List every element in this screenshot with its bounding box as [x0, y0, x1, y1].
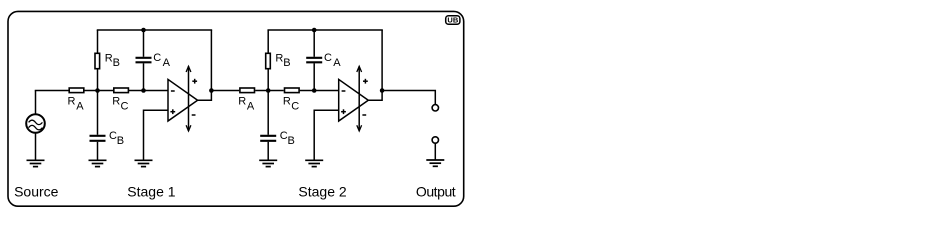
wire main: source to R_A (stage 1)	[35, 90, 70, 92]
svg-text:C: C	[121, 101, 129, 113]
svg-text:B: B	[117, 135, 124, 147]
ground (op-amp + input stage 2)	[305, 160, 323, 166]
wire C_B lower lead to ground (stage 2)	[267, 142, 269, 160]
label C_B (stage 1)	[109, 130, 124, 147]
label R_B (stage 1)	[105, 52, 120, 69]
capacitor C_B (stage 1)	[90, 136, 106, 141]
wire ground terminal to ground	[434, 143, 436, 160]
capacitor C_B (stage 2)	[260, 136, 276, 141]
svg-text:A: A	[333, 57, 341, 69]
node B1: C_A junction on main line (stage 1)	[141, 88, 146, 93]
wire main: stage 1 out to R_A (stage 2)	[211, 90, 239, 92]
resistor R_A (stage 1)	[69, 88, 84, 93]
svg-text:B: B	[113, 57, 120, 69]
svg-text:R: R	[105, 52, 113, 64]
label R_B (stage 2)	[275, 52, 290, 69]
node A2: R_A/R_C/R_B/C_B junction (stage 2)	[266, 88, 271, 93]
svg-text:C: C	[280, 130, 288, 142]
svg-text:A: A	[247, 101, 255, 113]
op-amp U1 positive supply arrow	[186, 66, 197, 131]
wire R_B lower lead (stage 2)	[267, 70, 269, 91]
wire R_C to op-amp (stage 1)	[129, 90, 168, 92]
wire source bottom to ground	[35, 133, 37, 160]
wire C_A upper lead (stage 2)	[313, 30, 315, 57]
label R_A (stage 1)	[68, 95, 85, 112]
svg-text:B: B	[288, 135, 295, 147]
svg-text:B: B	[283, 57, 290, 69]
resistor R_C (stage 2)	[285, 88, 300, 93]
svg-text:R: R	[112, 95, 120, 107]
wire op-amp + input to ground drop (stage 1)	[144, 110, 169, 160]
svg-text:Output: Output	[416, 184, 456, 200]
wire C_A upper lead (stage 1)	[143, 30, 145, 57]
wire op-amp U2 output stub	[368, 30, 382, 100]
node top rail / C_A (stage 2)	[312, 28, 317, 33]
op-amp U2 negative supply arrow	[357, 115, 366, 131]
ground (C_B stage 1)	[89, 160, 107, 166]
wire stage 2 out to output terminal	[382, 91, 435, 105]
svg-text:C: C	[291, 101, 299, 113]
label R_A (stage 2)	[238, 95, 255, 112]
logo UB badge	[446, 16, 460, 25]
op-amp U1 negative supply arrow	[186, 115, 195, 131]
svg-text:Source: Source	[14, 184, 59, 200]
output terminal (ground side)	[432, 137, 438, 143]
wire op-amp + input to ground drop (stage 2)	[314, 110, 339, 160]
ground (output)	[426, 160, 444, 166]
wire R_B lower lead (stage 1)	[97, 70, 99, 91]
node B2: C_A junction on main line (stage 2)	[312, 88, 317, 93]
resistor R_B (stage 2)	[266, 53, 271, 68]
capacitor C_A (stage 1)	[136, 58, 152, 63]
label C_A (stage 1)	[153, 52, 170, 69]
svg-text:A: A	[163, 57, 171, 69]
wire C_A lower lead (stage 2)	[313, 63, 315, 90]
wire R_C to op-amp (stage 2)	[300, 90, 339, 92]
resistor R_B (stage 1)	[95, 53, 100, 68]
ground (op-amp + input stage 1)	[135, 160, 153, 166]
op-amp U2 (stage 2)	[339, 79, 369, 121]
svg-text:UB: UB	[447, 16, 458, 25]
svg-text:R: R	[283, 95, 291, 107]
label R_C (stage 1)	[112, 95, 128, 112]
wire R_B upper lead to top rail (stage 1)	[97, 30, 99, 53]
wire R_B upper lead to top rail (stage 2)	[267, 30, 269, 53]
op-amp U2 positive supply arrow	[357, 66, 368, 131]
node A1: R_A/R_C/R_B/C_B junction (stage 1)	[95, 88, 100, 93]
wire R_A to R_C (stage 2)	[255, 90, 284, 92]
label C_B (stage 2)	[280, 130, 295, 147]
output terminal (signal)	[432, 105, 438, 111]
op-amp U1 (stage 1)	[168, 79, 198, 121]
capacitor C_A (stage 2)	[306, 58, 322, 63]
node out2: stage 2 output junction	[380, 88, 385, 93]
svg-text:R: R	[275, 52, 283, 64]
wire C_B upper lead (stage 1)	[97, 91, 99, 135]
svg-text:Stage 2: Stage 2	[298, 184, 346, 200]
svg-text:C: C	[109, 130, 117, 142]
node top rail / C_A (stage 1)	[141, 28, 146, 33]
wire C_B lower lead to ground (stage 1)	[97, 142, 99, 160]
wire R_A to R_C (stage 1)	[85, 90, 114, 92]
wire source top to main line	[35, 91, 37, 115]
ground (C_B stage 2)	[259, 160, 277, 166]
resistor R_C (stage 1)	[114, 88, 129, 93]
wire C_A lower lead (stage 1)	[143, 63, 145, 90]
resistor R_A (stage 2)	[240, 88, 255, 93]
wire op-amp U1 output stub	[198, 30, 212, 100]
svg-text:Stage 1: Stage 1	[127, 184, 175, 200]
label R_C (stage 2)	[283, 95, 299, 112]
svg-text:R: R	[238, 95, 246, 107]
wire top feedback rail (stage 2)	[267, 29, 382, 31]
svg-text:A: A	[76, 101, 84, 113]
svg-text:R: R	[68, 95, 76, 107]
label C_A (stage 2)	[324, 52, 341, 69]
AC source V1	[26, 114, 45, 133]
wire top feedback rail (stage 1)	[97, 29, 212, 31]
ground (source)	[27, 160, 45, 166]
node out1: stage 1 output junction	[209, 88, 214, 93]
svg-text:C: C	[153, 52, 161, 64]
svg-text:C: C	[324, 52, 332, 64]
wire C_B upper lead (stage 2)	[267, 91, 269, 135]
